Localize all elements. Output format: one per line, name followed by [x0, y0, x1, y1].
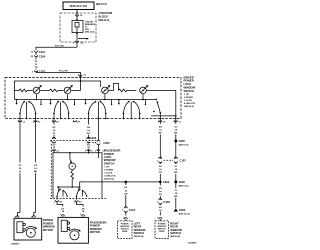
passenger motor brushes: [61, 220, 67, 231]
passenger inner bus: [58, 186, 80, 188]
wire from lamp2 to feed drop: [71, 81, 80, 90]
wire: [40, 89, 49, 91]
lockout lever: [157, 101, 159, 103]
svg-text:(8W-15-6): (8W-15-6): [179, 145, 189, 147]
svg-text:20A: 20A: [85, 28, 89, 31]
svg-text:C201: C201: [39, 50, 46, 54]
svg-text:LOCK: LOCK: [184, 82, 192, 86]
svg-text:BK: BK: [174, 196, 178, 198]
lamp 2: [64, 87, 71, 94]
svg-text:(8W-15-11): (8W-15-11): [179, 213, 190, 215]
node dot: [76, 19, 78, 21]
svg-text:SWITCH: SWITCH: [104, 161, 115, 165]
lamp 4: [140, 87, 147, 94]
driver power window motor box: [14, 218, 42, 240]
passenger rocker right: [76, 189, 88, 200]
node dot: [76, 33, 78, 35]
svg-text:WINDOW: WINDOW: [184, 86, 196, 90]
connector C206: [34, 55, 37, 57]
svg-text:4 UNLOCK: 4 UNLOCK: [184, 102, 196, 105]
junction block output arrow: [78, 38, 88, 40]
svg-text:PK: PK: [159, 133, 162, 135]
passenger lamp feed: [69, 153, 71, 159]
ground G302: [174, 208, 178, 211]
svg-text:POWER: POWER: [184, 79, 194, 83]
wire driver up: [19, 119, 21, 163]
svg-text:BLOCK: BLOCK: [99, 14, 109, 18]
lamp 3: [102, 87, 109, 94]
svg-text:S305: S305: [179, 139, 186, 143]
splice S306: [175, 181, 178, 184]
svg-text:DRIVER: DRIVER: [184, 75, 194, 79]
svg-text:SWITCH: SWITCH: [170, 231, 181, 235]
inner feed bus: [15, 81, 101, 90]
svg-text:SWITCH: SWITCH: [134, 231, 145, 235]
passenger lamp resistor vertical: [71, 170, 74, 187]
wire passenger 2: [88, 119, 90, 125]
passenger lamp: [69, 163, 76, 170]
driver motor: [26, 228, 35, 237]
svg-text:XJ08W2: XJ08W2: [188, 243, 197, 245]
svg-text:PK: PK: [159, 194, 162, 196]
right rear window switch dashed box: [155, 221, 169, 239]
wire from JB down-left to C201: [36, 47, 77, 50]
rocker switch 3: [85, 99, 87, 101]
svg-text:C308: C308: [163, 200, 170, 204]
pin 1 into junction block: [76, 15, 79, 17]
rocker switch 2: [50, 99, 52, 101]
splice S305: [175, 140, 178, 143]
left rear window switch dashed box: [118, 221, 133, 239]
circuit breaker body: [72, 21, 83, 33]
resistor R3: [119, 89, 137, 92]
wire driver down: [35, 119, 37, 163]
svg-text:C307: C307: [39, 70, 46, 74]
left rear branch: [125, 181, 128, 184]
driver power window switch dashed box: [5, 78, 181, 119]
svg-text:MOTOR: MOTOR: [43, 228, 53, 232]
passenger power window motor box: [58, 217, 88, 243]
svg-text:2 DOWN: 2 DOWN: [104, 170, 113, 172]
svg-text:(8W-12-6): (8W-12-6): [85, 32, 95, 34]
svg-text:JUNCTION: JUNCTION: [99, 11, 113, 15]
svg-text:(8W-12-2): (8W-12-2): [99, 19, 110, 22]
svg-text:BR: BR: [34, 171, 38, 173]
wire step between lamp3 and resistor R3: [109, 83, 119, 90]
svg-text:PK: PK: [159, 172, 162, 174]
lower bus: [15, 99, 157, 101]
svg-text:OR: OR: [124, 193, 128, 195]
svg-text:FEED: FEED: [159, 231, 165, 233]
connector C201: [34, 51, 37, 53]
passenger power window switch box: [53, 153, 102, 199]
lamp 1: [33, 87, 40, 94]
svg-text:(8W-15-6): (8W-15-6): [179, 185, 189, 187]
svg-text:(8W-60-3): (8W-60-3): [104, 179, 114, 181]
svg-text:BK: BK: [174, 172, 178, 174]
lamp return drops: [36, 94, 38, 99]
svg-text:(8W-60-4): (8W-60-4): [170, 235, 180, 238]
connector C305: [92, 142, 96, 144]
in-line connector C306: [50, 140, 96, 142]
svg-text:FEED: FEED: [122, 231, 128, 233]
svg-text:C206: C206: [39, 54, 46, 58]
svg-text:(8W-10-6): (8W-10-6): [96, 3, 107, 6]
passenger switch ground wire to splice: [102, 181, 160, 183]
svg-text:1 UP: 1 UP: [104, 167, 109, 169]
resistor R2: [50, 89, 64, 92]
wire ground: [175, 119, 177, 125]
svg-text:BREAKER: BREAKER: [85, 23, 96, 26]
svg-text:SWITCH: SWITCH: [184, 89, 195, 93]
wire from A21 into junction block: [76, 10, 78, 21]
passenger rocker left: [56, 189, 68, 200]
wire below breaker: [76, 33, 78, 48]
connector C307: [34, 70, 37, 72]
svg-text:MOTOR: MOTOR: [90, 230, 100, 234]
bottom edge junction dots: [19, 118, 20, 119]
svg-text:(8W-60-2): (8W-60-2): [184, 106, 194, 108]
passenger ground exit: [80, 182, 102, 187]
wire codes below C107: [159, 162, 161, 164]
svg-text:1 UP: 1 UP: [184, 94, 189, 96]
svg-text:RUN-ACC A21: RUN-ACC A21: [70, 4, 88, 8]
svg-text:C306: C306: [90, 136, 97, 140]
svg-text:(8W-60-4): (8W-60-4): [134, 235, 144, 238]
passenger door boundary dashed: [50, 141, 52, 199]
svg-text:J998W-7: J998W-7: [11, 244, 21, 246]
wires passenger switch to motor: [57, 202, 63, 207]
wire passenger feed: [97, 119, 99, 141]
driver motor brushes: [17, 222, 23, 233]
jogs into driver motor: [18, 213, 21, 216]
svg-text:3 LOCK: 3 LOCK: [184, 100, 192, 102]
svg-text:C305: C305: [103, 141, 110, 145]
unused contact stubs: [40, 100, 42, 105]
rocker switch 1: [16, 99, 18, 101]
splice S302: [159, 181, 162, 184]
svg-text:2 DOWN: 2 DOWN: [184, 97, 193, 99]
svg-text:S302: S302: [163, 180, 170, 184]
svg-text:F9 12TN: F9 12TN: [59, 70, 68, 72]
svg-text:4 UNLOCK: 4 UNLOCK: [104, 175, 116, 178]
window lockout switch: [147, 89, 176, 91]
passenger motor: [70, 231, 79, 240]
fuse label box RUN-ACC A21: [63, 2, 94, 10]
svg-text:G302: G302: [179, 208, 186, 212]
connector half-circle at JB exit: [75, 41, 78, 43]
svg-text:S306: S306: [179, 180, 186, 184]
resistor R1: [15, 89, 33, 92]
svg-text:F9 12TN: F9 12TN: [55, 45, 64, 47]
wire passenger 1: [53, 119, 55, 125]
wire right rear feed: [159, 119, 161, 125]
junction block dashed box: [60, 13, 96, 42]
svg-text:3 LOCK: 3 LOCK: [104, 173, 112, 175]
svg-text:C107: C107: [180, 159, 187, 163]
svg-text:C310: C310: [129, 208, 136, 212]
svg-text:BK: BK: [174, 133, 178, 135]
wire from C307 right to switch: [36, 71, 81, 81]
rocker switch 4: [118, 99, 120, 101]
